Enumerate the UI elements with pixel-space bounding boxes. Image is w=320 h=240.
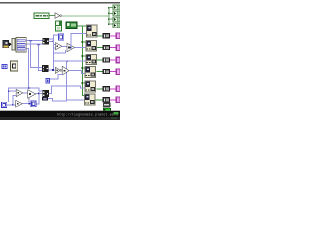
wire vertical x38 down: [38, 45, 39, 71]
numeric constant N3 (left small): [2, 64, 8, 69]
comparator T-A: [16, 89, 23, 96]
wire green TD right edge to trunk: [78, 26, 84, 27]
wire T2 output to fmt F2: [75, 47, 86, 48]
junction field2: [38, 44, 40, 46]
boolean indicator LED3: [113, 17, 120, 23]
conversion node CN: [42, 97, 48, 101]
wire field1 to bundle D1: [27, 40, 43, 41]
wire T3 output to T4: [61, 70, 64, 71]
multiplier T4: [62, 66, 69, 75]
numeric constant E: [1, 102, 7, 108]
string indicator P4: [116, 68, 120, 75]
wire stub T1 upper input: [53, 44, 56, 45]
bundle node D1: [42, 38, 49, 45]
wire green stub to fmt box F3: [82, 56, 86, 57]
wire riser to T-C lower: [29, 98, 30, 103]
wire magenta to indicator P6: [110, 99, 116, 100]
wire vertical x8.5 to constant E: [8, 88, 9, 102]
format VI F1: [86, 25, 98, 38]
knob icon box K1: [10, 61, 18, 72]
wire stub to indicator LED3: [109, 19, 113, 20]
format VI F6: [84, 94, 96, 106]
junction field1: [30, 40, 32, 42]
wire into bundle D3 upper: [38, 91, 42, 92]
unbundle-by-name C: [16, 37, 27, 53]
format VI F4: [85, 66, 97, 78]
wire T-C output to bundle D3: [36, 93, 43, 94]
boolean indicator LED2: [113, 11, 120, 17]
format VI F5: [85, 81, 97, 93]
wire horizontal y101: [52, 101, 67, 102]
wire N2 under-loop to T4 lower input: [50, 78, 58, 79]
junction T-C output: [38, 93, 40, 95]
wire CN output jog: [48, 98, 53, 99]
boolean constant B1 (Üks/keel): [34, 13, 50, 20]
wire D2 output to T3: [49, 70, 56, 71]
wire T1 output: [62, 46, 67, 47]
wire under T1 to T2 lower input: [53, 52, 66, 53]
wire green stub to fmt box F1: [82, 26, 86, 27]
string terminal G4: [103, 69, 111, 74]
wire vertical x30 down: [30, 41, 31, 68]
string terminal G6: [103, 97, 111, 102]
bundle node D2: [42, 65, 49, 72]
wire green trunk turn into fmt box F6: [82, 95, 85, 96]
string indicator P3: [116, 57, 120, 64]
wire green F4 to terminal G4: [97, 71, 103, 72]
stop button label box: [103, 103, 111, 108]
wire T-A output to T-C: [23, 93, 28, 94]
wire into bundle D2 upper: [30, 67, 42, 68]
junction at x8.5 y91: [8, 90, 10, 92]
string indicator P1: [116, 33, 120, 40]
boolean indicator LED1: [113, 5, 120, 11]
wire green F5 to terminal G5: [97, 88, 103, 89]
numeric constant N2: [46, 78, 51, 84]
wire magenta to indicator P3: [110, 60, 116, 61]
wire magenta to indicator P5: [110, 88, 116, 89]
wire T-B output: [22, 103, 30, 104]
multiplier T2: [67, 43, 75, 52]
arrow glyph between A and B: [9, 42, 12, 46]
bottom black band: [0, 110, 120, 111]
string terminal G1: [103, 33, 111, 38]
svg-text:http://liugnumate.planet.ee/u: http://liugnumate.planet.ee/u: [57, 112, 118, 117]
junction E output: [12, 104, 14, 106]
wire green stub to fmt box F5: [82, 83, 85, 84]
wire vertical x66.5 down: [66, 61, 67, 102]
bundle node D3: [42, 90, 49, 97]
junction boolean dots: [108, 7, 110, 8]
numeric constant ND: [31, 101, 37, 108]
junction green J2: [82, 55, 84, 57]
wire stub to indicator LED4: [109, 24, 113, 25]
string indicator P6: [116, 97, 120, 104]
junction T2 output: [70, 47, 72, 49]
comparator T-B: [16, 100, 23, 107]
wire into bundle D2 lower: [38, 70, 42, 71]
string terminal G5: [103, 86, 111, 91]
wire green F6 to terminal G6: [96, 99, 103, 100]
NOT gate U1: [55, 13, 62, 19]
wire horizontal y60.5 to fmt F3: [53, 61, 86, 62]
subVI icon A (file read): [3, 40, 9, 48]
wire ND output up to bundle D3 lower: [37, 104, 40, 105]
wire green F3 to terminal G3: [97, 60, 103, 61]
faint logo lower: [111, 117, 117, 119]
format VI F3: [86, 54, 98, 65]
wire E output: [7, 104, 16, 105]
junction D2 output: [52, 69, 54, 71]
string indicator P5: [116, 86, 120, 93]
wire vertical x12.5 up to T-A lower: [12, 95, 13, 104]
numeric constant N8: [58, 34, 64, 41]
wire D1 output: [49, 41, 54, 42]
wire magenta to indicator P1: [110, 35, 116, 36]
time-delay VI U3 (TD): [66, 22, 78, 30]
wire stub to comparator T-A upper: [9, 91, 17, 92]
wire stub T-A lower input: [12, 95, 16, 96]
tiny logo bottom-right: [114, 112, 119, 115]
elapsed-time VI U2 (clock icon): [55, 21, 62, 32]
format VI F2: [86, 40, 98, 52]
wire T4 output to fmt F4: [69, 70, 82, 71]
wire D1 top tap: [49, 39, 53, 40]
node B (type cast): [12, 38, 16, 51]
wire green F1 to terminal G1: [98, 35, 103, 36]
wire horizontal y87.6: [8, 88, 39, 89]
wire magenta to indicator P4: [110, 71, 116, 72]
comparator T1: [56, 43, 62, 50]
wire vertical x38.8 to bundle D3: [38, 88, 39, 92]
junction at tee x28.5 y87.6: [28, 87, 30, 89]
junction green J4: [82, 82, 84, 84]
wire field2 to bundle D1 lower: [27, 44, 43, 45]
multiplier T-C: [28, 90, 36, 99]
wire magenta to indicator P2: [110, 47, 116, 48]
wire N8 left to vertical: [53, 34, 58, 35]
wire boolean vertical trunk: [109, 7, 110, 24]
wire boolean from B1 to NOT gate: [50, 15, 56, 16]
junction D1 output: [53, 41, 55, 43]
wire stub to indicator LED2: [109, 13, 113, 14]
string indicator P2: [116, 44, 120, 51]
wire green F2 to terminal G2: [97, 47, 103, 48]
wire green stub to fmt box F2: [82, 42, 86, 43]
wire vertical x28.5 down: [28, 48, 29, 88]
wire stub to indicator LED1: [109, 7, 113, 8]
string terminal G2: [103, 45, 111, 50]
NOT-equal gate T3: [55, 67, 61, 73]
string terminal G3: [103, 57, 111, 62]
wire vertical up to y33.5: [70, 33, 71, 47]
bottom dark gray band: [0, 117, 120, 120]
wire field3 right stub: [27, 48, 29, 49]
loop frame top edge: [0, 2, 120, 3]
wire horizontal y33.5 to fmt F1: [70, 33, 86, 34]
junction green J3: [82, 67, 84, 69]
wire boolean NOT output to indicator stack: [62, 14, 109, 17]
junction T-B output: [28, 103, 30, 105]
wire horizontal y97.5 into fmt F6: [66, 99, 84, 100]
wire green trunk vertical x82.3: [82, 26, 83, 96]
wire vertical x53.2 N8-to-y70: [53, 34, 54, 70]
junction green J1: [82, 41, 84, 43]
boolean indicator LED4: [113, 23, 120, 29]
junction y60.5 x66.5: [66, 60, 68, 62]
wire green stub to fmt box F4: [82, 68, 85, 69]
stop boolean terminal TF: [103, 108, 111, 112]
background: [0, 0, 120, 120]
wire stub T1 lower input: [53, 47, 56, 48]
wire D3 output up-over to fmt F5: [49, 93, 52, 94]
